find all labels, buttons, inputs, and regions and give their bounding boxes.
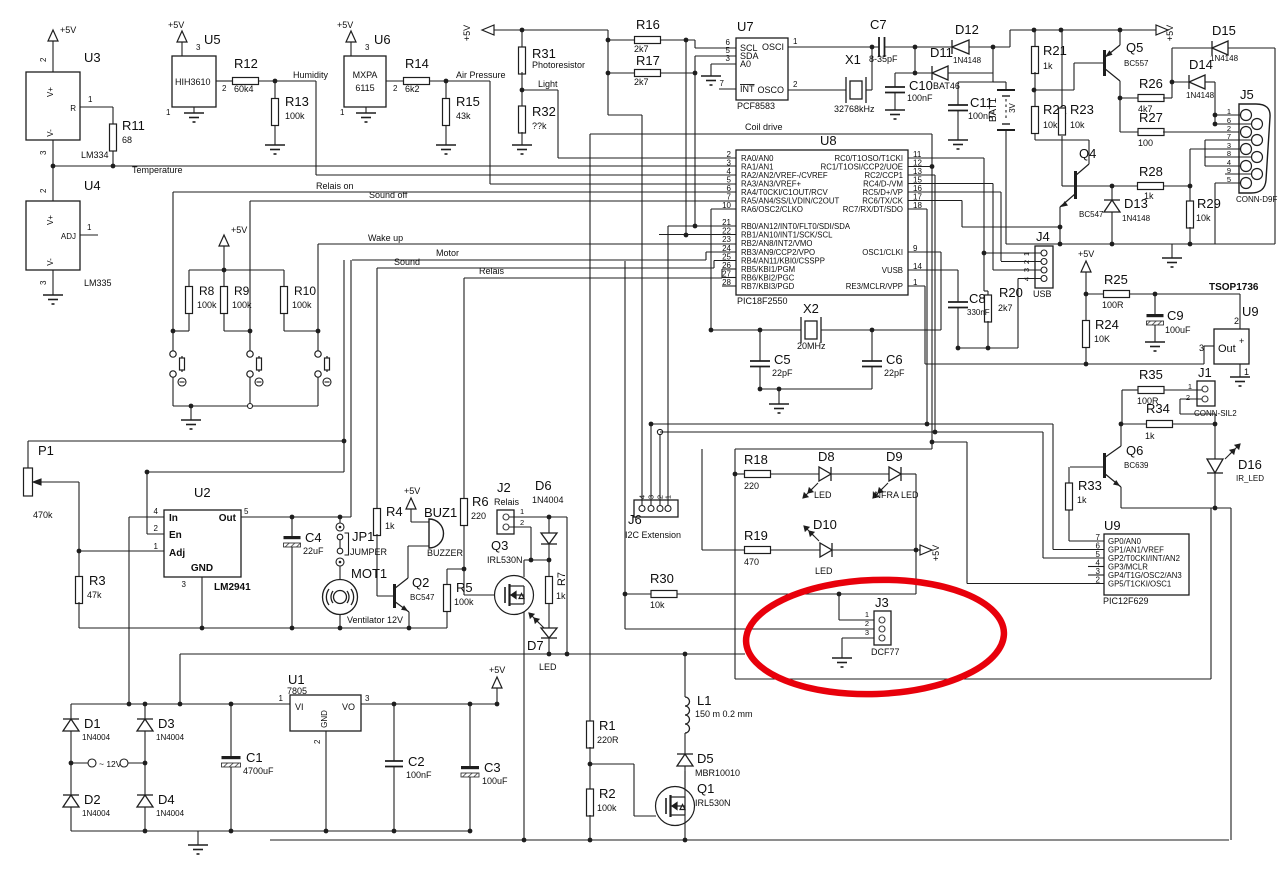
svg-text:1: 1: [87, 223, 92, 232]
wire D1 top: [70, 704, 72, 719]
connector J4 USB: [1035, 246, 1053, 288]
wire gnd stem bottom: [197, 831, 199, 845]
wire U6 pin3: [350, 42, 352, 56]
wire RC4 to J4 pin3: [992, 184, 994, 271]
wire BAT1 to gnd rail: [1006, 243, 1060, 245]
wire J6 pin2 column: [659, 432, 661, 505]
potentiometer P1: [24, 468, 33, 496]
wire U2 En: [147, 533, 164, 535]
svg-text:Relais on: Relais on: [316, 181, 354, 191]
IC U7 PCF8583: [736, 38, 788, 100]
svg-text:3: 3: [196, 43, 201, 52]
terminal AC 2: [120, 759, 128, 767]
svg-text:330nF: 330nF: [967, 308, 990, 317]
junction En: [145, 470, 150, 475]
wire Q5 base column: [1073, 63, 1075, 90]
svg-text:C10: C10: [909, 78, 933, 93]
svg-text:2: 2: [865, 619, 869, 628]
svg-text:D3: D3: [158, 716, 175, 731]
svg-text:R26: R26: [1139, 76, 1163, 91]
battery BAT1: [997, 90, 1015, 130]
svg-text:32768kHz: 32768kHz: [834, 104, 875, 114]
junction R9 top: [222, 268, 227, 273]
svg-text:USB: USB: [1033, 289, 1052, 299]
junction R24/IR: [1084, 362, 1089, 367]
wire C5 top: [759, 330, 761, 361]
svg-text:OSC1/CLKI: OSC1/CLKI: [862, 248, 903, 257]
junction R1/R2: [588, 762, 593, 767]
svg-text:1: 1: [865, 610, 869, 619]
svg-text:INT: INT: [740, 84, 755, 94]
wire U3 pin2: [52, 41, 54, 72]
diode D9 INFRA LED arrows: [873, 483, 888, 498]
wire J6 pin3 column: [650, 424, 652, 505]
wire to C11: [958, 81, 993, 83]
wire DCF column: [624, 261, 626, 629]
svg-text:6k2: 6k2: [405, 84, 420, 94]
wire X2 row right: [821, 329, 941, 331]
svg-text:100k: 100k: [285, 111, 305, 121]
junction +12V rail: [178, 702, 183, 707]
wire J2 pin2 down: [530, 527, 532, 560]
svg-text:~ 12V: ~ 12V: [99, 759, 122, 769]
svg-text:D12: D12: [955, 22, 979, 37]
junction C2 top: [392, 702, 397, 707]
svg-text:47k: 47k: [87, 590, 102, 600]
svg-text:Motor: Motor: [436, 248, 459, 258]
wire U5 pin2: [216, 80, 232, 82]
diode D7 arrows: [529, 613, 544, 628]
svg-text:C1: C1: [246, 750, 263, 765]
wire R22 to Q4 collector: [1035, 139, 1089, 141]
svg-text:Humidity: Humidity: [293, 70, 329, 80]
switch S3 actuator: [323, 378, 331, 386]
svg-text:3: 3: [182, 580, 187, 589]
junction R30: [623, 592, 628, 597]
junction C5: [758, 328, 763, 333]
diode D13 1N4148: [1104, 200, 1120, 212]
capacitor C9: [1147, 314, 1164, 325]
wire A0 to ground: [710, 64, 712, 76]
pin circle J4: [1041, 267, 1047, 273]
wire TSOP out down: [1203, 346, 1205, 364]
wire D8 to D9: [831, 473, 889, 475]
wire Relais to RB5: [722, 268, 736, 270]
wire C5 bottom: [759, 367, 761, 390]
resistor R15: [443, 99, 450, 126]
wire +12V rail drop: [179, 654, 181, 704]
svg-text:D10: D10: [813, 517, 837, 532]
wire ground rail J5: [1060, 243, 1275, 245]
junction SCL RB1: [684, 233, 689, 238]
wire RC2 column: [934, 175, 936, 432]
svg-text:+5V: +5V: [60, 25, 76, 35]
+5V symbol right: [1156, 25, 1168, 35]
svg-text:RC7/RX/DT/SDO: RC7/RX/DT/SDO: [843, 205, 903, 214]
switch S1: [170, 351, 185, 377]
wire GP5 row: [967, 583, 1104, 585]
wire RC6 TX row: [908, 200, 962, 202]
inductor L1: [685, 697, 690, 733]
junction emitter rail: [1058, 242, 1063, 247]
wire R20 top: [983, 253, 985, 291]
wire U1 gnd: [325, 731, 327, 831]
capacitor C6: [862, 361, 882, 367]
wire J4 pin4 down: [1017, 279, 1019, 349]
junction D6 top: [547, 515, 552, 520]
wire Temperature net: [53, 165, 736, 167]
svg-text:22pF: 22pF: [884, 368, 905, 378]
svg-text:4700uF: 4700uF: [243, 766, 274, 776]
+5V symbol U6: [346, 31, 356, 42]
svg-text:2: 2: [1096, 576, 1101, 585]
svg-text:2: 2: [793, 80, 798, 89]
svg-text:HIH3610: HIH3610: [175, 77, 211, 87]
svg-text:JP1: JP1: [352, 529, 374, 544]
wire Sound net: [377, 267, 714, 269]
transistor Q4 BC547: [1060, 164, 1089, 207]
svg-text:R25: R25: [1104, 272, 1128, 287]
wire Q5 base: [1074, 62, 1104, 64]
wire D14/D15 column: [1171, 48, 1173, 98]
svg-text:I2C Extension: I2C Extension: [625, 530, 681, 540]
resistor R32: [519, 106, 526, 133]
svg-text:U7: U7: [737, 19, 754, 34]
svg-text:Temperature: Temperature: [132, 165, 183, 175]
junction J5 pin6: [1213, 122, 1218, 127]
+5V symbol switches: [219, 235, 229, 246]
wire SDA column: [694, 56, 696, 226]
wire J5 pin1: [1215, 114, 1241, 116]
svg-text:BUZ1: BUZ1: [424, 505, 457, 520]
svg-text:D2: D2: [84, 792, 101, 807]
wire D2 top: [70, 763, 72, 795]
pin circle J3-3: [879, 635, 885, 641]
ground bottom: [188, 845, 208, 854]
wire RC5 row: [908, 191, 1001, 193]
wire R19 left: [702, 549, 745, 551]
svg-text:1k: 1k: [1145, 431, 1155, 441]
resistor R28: [1138, 183, 1164, 190]
resistor R31: [519, 47, 526, 74]
wire switch3 bottom: [317, 377, 319, 406]
wire D5 to Q1: [684, 766, 686, 788]
junction U2 gnd rail: [200, 626, 205, 631]
wire R8 jog: [173, 330, 189, 332]
svg-text:U8: U8: [820, 133, 837, 148]
wire R10 jog: [284, 330, 318, 332]
wire GP4 stub: [1088, 574, 1104, 576]
svg-text:3: 3: [1199, 343, 1204, 353]
capacitor C7: [879, 37, 885, 57]
wire ground stem: [1171, 244, 1173, 258]
resistor R33: [1066, 483, 1073, 510]
svg-text:R17: R17: [636, 53, 660, 68]
wire R9 top: [223, 270, 225, 286]
wire R34 right: [1173, 423, 1215, 425]
buzzer BUZ1: [429, 519, 444, 548]
wire D11 row: [895, 72, 932, 74]
wire D6 top stub: [548, 517, 550, 533]
wire R27 to J5 pin2: [1163, 131, 1243, 133]
svg-text:LED: LED: [815, 566, 833, 576]
junction RA6/X2: [709, 328, 714, 333]
svg-text:BC547: BC547: [410, 593, 435, 602]
wire J6 pin1 column: [667, 226, 669, 505]
svg-text:3: 3: [39, 280, 48, 285]
svg-text:1: 1: [1244, 367, 1249, 377]
svg-text:1: 1: [520, 507, 524, 516]
svg-text:R24: R24: [1095, 317, 1119, 332]
svg-text:U9: U9: [1104, 518, 1121, 533]
svg-text:R27: R27: [1139, 110, 1163, 125]
resistor R19: [745, 547, 771, 554]
switch S2 actuator: [255, 378, 263, 386]
wire J1 pin2: [1180, 398, 1202, 400]
wire U3 pin1: [80, 106, 113, 108]
wire BAT1 bottom: [1005, 130, 1007, 244]
wire D3 bottom: [144, 731, 146, 763]
svg-text:D16: D16: [1238, 457, 1262, 472]
wire R9 jog: [224, 330, 250, 332]
svg-text:R1: R1: [599, 718, 616, 733]
diode D15 1N4148: [1212, 41, 1228, 55]
connection JP1 bottom: [336, 558, 344, 566]
wire Sound off net: [250, 200, 736, 202]
junction D4 gnd: [143, 829, 148, 834]
wire J6 to GP1: [651, 423, 1053, 425]
svg-text:R11: R11: [122, 118, 145, 133]
connector J5 CONN-D9F outline: [1239, 104, 1270, 193]
svg-text:C6: C6: [886, 352, 903, 367]
svg-text:C8: C8: [969, 291, 986, 306]
svg-text:LM334: LM334: [81, 150, 109, 160]
wire J3 pin1 row: [839, 619, 879, 621]
wire D3 top: [144, 704, 146, 719]
svg-text:+5V: +5V: [337, 20, 353, 30]
svg-text:1k: 1k: [1077, 495, 1087, 505]
wire Q4 emitter: [1059, 207, 1061, 244]
wire R32 bottom: [521, 132, 523, 145]
svg-text:100k: 100k: [454, 597, 474, 607]
wire +5V to J6: [608, 114, 642, 116]
wire pin1 to column: [549, 516, 567, 518]
resistor R9: [221, 287, 228, 314]
junction C1 top: [229, 702, 234, 707]
wire main gnd rail: [270, 839, 1229, 841]
resistor R29: [1187, 201, 1194, 228]
svg-text:2: 2: [39, 57, 48, 62]
svg-text:3: 3: [865, 628, 869, 637]
svg-text:3: 3: [726, 54, 731, 63]
wire gnd rail left: [79, 627, 447, 629]
wire wiper to Adj: [78, 482, 80, 551]
wire drain row: [524, 559, 549, 561]
wire D10 right: [832, 549, 916, 551]
wire P1 top: [27, 441, 29, 468]
junction D11/C10: [913, 71, 918, 76]
svg-text:68: 68: [122, 135, 132, 145]
pin circle J6: [665, 506, 671, 512]
junction J5 pin1: [1213, 113, 1218, 118]
svg-text:1N4004: 1N4004: [82, 733, 111, 742]
resistor R23: [1059, 108, 1066, 135]
wire Sound to RB4: [714, 260, 736, 262]
wire OSC1 row: [908, 251, 941, 253]
pin circle J2-2: [503, 524, 509, 530]
junction D10 right: [914, 548, 919, 553]
wire J1 pin2 row: [1180, 413, 1215, 415]
wire R3 top: [78, 551, 80, 578]
wire R1/R2 to gate: [590, 763, 634, 765]
svg-text:C3: C3: [484, 760, 501, 775]
wire R31/R32: [521, 72, 523, 107]
wire R24 bottom: [1085, 348, 1087, 365]
wire +12V to U2 In: [128, 517, 130, 704]
svg-text:+5V: +5V: [168, 20, 184, 30]
wire R29 top: [1189, 186, 1191, 202]
wire OSCI row: [788, 46, 879, 48]
wire Motor to RB3: [706, 251, 736, 253]
wire R26 right: [1163, 97, 1172, 99]
junction TX: [1058, 225, 1063, 230]
wire D2 bottom: [70, 807, 72, 831]
junction C4 gnd: [290, 626, 295, 631]
wire Q3 gate: [464, 594, 495, 596]
svg-text:+5V: +5V: [1078, 249, 1094, 259]
junction C7/D11: [913, 45, 918, 50]
wire R21 top: [1034, 30, 1036, 48]
svg-text:U4: U4: [84, 178, 101, 193]
resistor R22: [1032, 107, 1039, 134]
svg-text:VUSB: VUSB: [882, 266, 903, 275]
wire R23 top: [1061, 30, 1063, 107]
junction R25/R24: [1084, 292, 1089, 297]
svg-text:Sound: Sound: [394, 257, 420, 267]
svg-text:1N4148: 1N4148: [1210, 54, 1239, 63]
pin circle J5: [1241, 110, 1252, 121]
pin circle J5: [1252, 152, 1263, 163]
ground J3: [832, 658, 852, 667]
junction R12/R13: [273, 79, 278, 84]
switch S3: [315, 351, 330, 377]
wire Motor jog: [705, 252, 707, 260]
diode D9 INFRA LED: [889, 467, 901, 481]
wire J1 pin2 to R34: [1214, 414, 1216, 424]
ground A0: [701, 76, 721, 85]
resistor R24: [1083, 321, 1090, 348]
svg-text:2: 2: [154, 524, 159, 533]
wire J3 pin2 row: [625, 628, 879, 630]
svg-text:Ventilator 12V: Ventilator 12V: [347, 615, 403, 625]
junction R28/R29: [1188, 184, 1193, 189]
svg-text:In: In: [169, 513, 178, 524]
junction J6 GP1: [649, 422, 654, 427]
IC U6 MXPA6115: [344, 56, 386, 107]
wire X1 right: [866, 89, 872, 91]
junction SDA RB0: [693, 224, 698, 229]
svg-text:X2: X2: [803, 301, 819, 316]
junction J4 pin1/R20: [982, 251, 987, 256]
wire D14 right: [1205, 81, 1215, 83]
wire C2 top stub: [393, 704, 395, 761]
wire C11 top: [957, 82, 959, 105]
pin circle J5: [1252, 169, 1263, 180]
svg-text:VO: VO: [342, 702, 355, 712]
svg-text:100k: 100k: [232, 300, 252, 310]
wire En column: [146, 472, 148, 534]
svg-text:GND: GND: [320, 710, 329, 728]
wire Air Pressure net: [430, 80, 490, 82]
junction ground stem: [777, 387, 782, 392]
svg-text:1k: 1k: [556, 591, 566, 601]
wire J3 pin3 row: [842, 637, 879, 639]
pin circle J5: [1252, 119, 1263, 130]
capacitor C10: [885, 87, 905, 93]
wire +5V stem TSOP: [1085, 272, 1087, 294]
wire C6 top: [871, 330, 873, 361]
svg-text:BC557: BC557: [1124, 59, 1149, 68]
wire switch top rail: [189, 269, 284, 271]
svg-text:1N4148: 1N4148: [953, 56, 982, 65]
transistor Q2 BC547: [394, 578, 409, 612]
wire Light net: [522, 89, 558, 91]
ground X2: [769, 404, 789, 413]
wire R7 to D7: [548, 603, 550, 628]
svg-text:1: 1: [88, 95, 93, 104]
junction switch2: [248, 329, 253, 334]
wire R16 right: [661, 39, 695, 41]
wire C10 bottom: [894, 93, 896, 111]
wire D16 top: [1214, 424, 1216, 459]
wire Light to RA0: [558, 157, 736, 159]
svg-text:R4: R4: [386, 504, 403, 519]
terminal AC 1: [88, 759, 96, 767]
wiper P1: [33, 479, 79, 485]
wire D16 bottom stub: [1214, 473, 1216, 508]
wire to BUZ1 top: [411, 521, 429, 523]
wire to R5: [447, 568, 464, 570]
wire J5 pin3 to R28: [1189, 149, 1191, 186]
junction Q1 source gnd: [683, 838, 688, 843]
junction C1 gnd: [229, 829, 234, 834]
wire Q2 emitter: [408, 612, 410, 628]
svg-text:LM335: LM335: [84, 278, 112, 288]
svg-text:Relais: Relais: [479, 266, 505, 276]
wire J5 pin8: [1205, 156, 1252, 158]
wire R24 top: [1085, 294, 1087, 321]
junction L1 top: [683, 652, 688, 657]
+5V symbol U1: [492, 677, 502, 688]
junction AC right: [143, 761, 148, 766]
wire Motor column 2: [350, 260, 352, 517]
svg-text:IRL530N: IRL530N: [695, 798, 731, 808]
wire C10 top: [894, 73, 896, 87]
svg-text:1N4148: 1N4148: [1122, 214, 1151, 223]
svg-text:100R: 100R: [1102, 300, 1124, 310]
svg-text:1k: 1k: [1043, 61, 1053, 71]
wire R21/R22: [1034, 72, 1036, 107]
svg-text:+5V: +5V: [231, 225, 247, 235]
wire relay supply column: [566, 517, 568, 654]
wire RB0 row: [668, 225, 736, 227]
connection JP1 top: [336, 523, 344, 531]
wire RC7 RX row: [908, 208, 927, 210]
wire R35 down: [1121, 390, 1123, 424]
svg-text:BUZZER: BUZZER: [427, 548, 464, 558]
junction R14/R15: [444, 79, 449, 84]
svg-text:D15: D15: [1212, 23, 1236, 38]
